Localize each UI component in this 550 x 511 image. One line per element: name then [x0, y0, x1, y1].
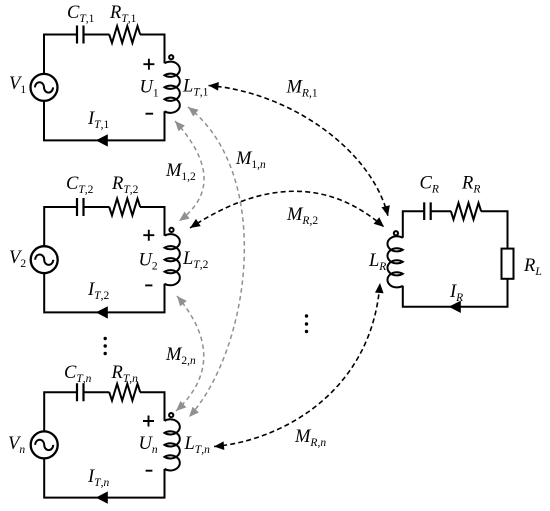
- svg-text:RL: RL: [523, 256, 542, 278]
- ellipsis dots left: [104, 337, 107, 355]
- svg-text:U1: U1: [140, 78, 159, 100]
- resistor RT1: [109, 26, 140, 43]
- load resistor RL: [502, 249, 514, 279]
- source V1: [31, 74, 58, 101]
- inductor LTn: [165, 419, 180, 470]
- minus sign Un: [146, 470, 153, 472]
- svg-text:M2,n: M2,n: [165, 345, 196, 367]
- current arrow ITn: [96, 491, 108, 503]
- resistor RT2: [109, 199, 140, 216]
- ellipsis dots middle: [305, 314, 308, 333]
- current arrow IT2: [96, 306, 108, 318]
- svg-text:U2: U2: [139, 251, 158, 273]
- current arrow IR: [449, 301, 461, 313]
- plus sign U1: [143, 59, 154, 70]
- polarity dot T2: [169, 228, 173, 232]
- svg-text:IT,n: IT,n: [87, 467, 109, 489]
- inductor LT2: [165, 234, 180, 285]
- wire loop T2: [44, 207, 164, 312]
- svg-text:CT,2: CT,2: [66, 174, 94, 196]
- polarity dot T1: [169, 55, 173, 59]
- resistor RTn: [109, 384, 140, 401]
- svg-text:IT,2: IT,2: [87, 280, 109, 302]
- source V2: [31, 246, 58, 273]
- svg-text:CT,1: CT,1: [67, 3, 95, 25]
- svg-text:LT,2: LT,2: [182, 249, 209, 271]
- current arrow IT1: [96, 134, 108, 146]
- svg-text:LR: LR: [368, 251, 386, 273]
- svg-text:CR: CR: [420, 174, 439, 196]
- svg-text:V1: V1: [9, 74, 26, 96]
- wire loop R: [403, 211, 508, 307]
- polarity dot R: [394, 231, 398, 235]
- svg-text:IR: IR: [449, 282, 463, 304]
- svg-text:MR,1: MR,1: [286, 78, 318, 100]
- svg-text:RR: RR: [461, 174, 480, 196]
- mutual inductance MR2 arrow: [190, 191, 384, 228]
- inductor LR: [387, 236, 402, 287]
- polarity dot Tn: [169, 413, 173, 417]
- mutual inductance M2n arrow: [176, 296, 204, 411]
- svg-text:MR,n: MR,n: [294, 427, 326, 449]
- svg-text:Vn: Vn: [8, 434, 25, 456]
- capacitor CR: [424, 202, 431, 220]
- svg-text:M1,n: M1,n: [235, 149, 266, 171]
- svg-text:LT,1: LT,1: [182, 77, 209, 99]
- plus sign U2: [143, 230, 154, 241]
- wire loop Tn: [44, 392, 164, 497]
- svg-text:M1,2: M1,2: [165, 161, 196, 183]
- svg-text:Un: Un: [139, 434, 158, 456]
- mutual inductance MR1 arrow: [209, 86, 389, 217]
- capacitor CT1: [77, 26, 84, 44]
- capacitor CT2: [77, 198, 84, 216]
- capacitor CTn: [77, 383, 84, 401]
- svg-text:RT,1: RT,1: [109, 3, 137, 25]
- inductor LT1: [165, 62, 180, 113]
- mutual inductance M12 arrow: [175, 121, 204, 221]
- source Vn: [31, 431, 58, 458]
- svg-text:CT,n: CT,n: [64, 363, 92, 385]
- mutual inductance M1n arrow: [188, 107, 244, 417]
- wire loop T1: [44, 35, 165, 141]
- svg-text:RT,n: RT,n: [111, 363, 139, 385]
- svg-text:IT,1: IT,1: [87, 109, 109, 131]
- svg-text:LT,n: LT,n: [184, 434, 211, 456]
- svg-text:MR,2: MR,2: [286, 205, 318, 227]
- mutual inductance MRn arrow: [214, 283, 380, 447]
- minus sign U1: [146, 113, 154, 115]
- svg-text:V2: V2: [9, 248, 26, 270]
- plus sign Un: [143, 416, 154, 427]
- svg-text:RT,2: RT,2: [111, 174, 139, 196]
- resistor RR: [451, 203, 481, 220]
- minus sign U2: [145, 284, 152, 286]
